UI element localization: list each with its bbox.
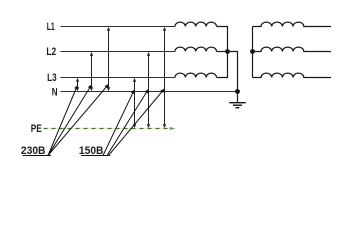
leader 230V to arrow L3 [48,86,77,156]
wire line L1 [61,26,176,28]
primary winding phase L1 [175,22,217,26]
secondary star bus [252,27,254,78]
leader 230V to arrow L2 [48,85,91,156]
PE conductor dashed green/yellow with arrow [44,127,176,130]
svg-text:L3: L3 [47,72,57,84]
ground symbol [229,103,245,108]
wire to ground [237,92,239,103]
leader underline 230V [23,155,52,157]
primary winding phase L2 [175,47,217,51]
primary winding phase L3 [175,73,217,77]
voltage arrow N-L3 (230V) [76,78,79,91]
voltage arrow PE-L1 (150V) [163,27,166,128]
wire line L2 [61,51,176,53]
wire L2 winding to star point [217,51,228,53]
wire L1 winding to star point [217,27,228,52]
wire L3 winding to star point [217,52,228,78]
leader underline 150V [81,155,110,157]
wire line N [61,91,238,93]
wire star point to neutral/ground [228,52,238,92]
svg-text:N: N [52,87,58,99]
junction dot N to ground [235,89,240,94]
voltage arrow PE-L2 (150V) [147,52,150,128]
secondary winding phase b [253,47,332,51]
leader 150V to arrow L1 [109,89,165,156]
wire line L3 [61,77,176,79]
voltage arrow PE-L3 (150V) [133,78,136,128]
secondary winding phase a [253,22,332,26]
voltage arrow N-L1 (230V) [107,27,110,91]
svg-text:L1: L1 [47,21,55,33]
leader 150V to arrow L3 [103,90,134,156]
junction dot primary star point [225,49,230,54]
leader 230V to arrow L1 [48,85,108,156]
leader 150V to arrow L2 [107,90,148,156]
svg-text:PE: PE [31,123,42,135]
voltage arrow N-L2 (230V) [90,52,93,91]
svg-text:L2: L2 [46,46,56,58]
secondary winding phase c [253,73,332,77]
junction dot secondary star point [250,49,255,54]
